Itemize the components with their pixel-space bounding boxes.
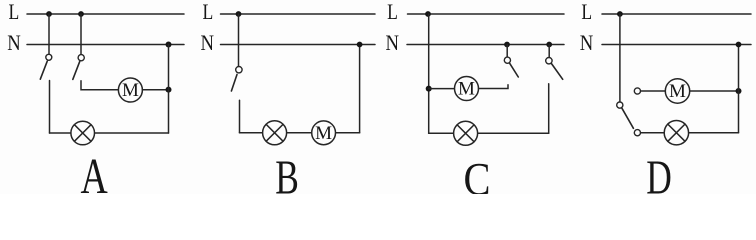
motor M (circuit D) <box>665 79 689 103</box>
wire N line (circuit C) <box>407 44 564 46</box>
wire L line (circuit A) <box>27 13 184 15</box>
wire bottom loop (circuit C) <box>429 132 549 134</box>
wire N line (circuit D) <box>602 44 751 46</box>
junction dot on N, right rail (circuit A) <box>166 42 172 48</box>
lamp (circuit C) <box>454 121 478 145</box>
junction dot motor/right rail (circuit A) <box>166 87 172 93</box>
wire L line (circuit D) <box>602 13 751 15</box>
svg-text:D: D <box>646 151 672 194</box>
wire right rail (circuit D) <box>738 45 740 133</box>
wire bottom loop (circuit A) <box>50 132 169 134</box>
wire N to switch S1 (circuit C) <box>506 45 508 58</box>
junction dot on N, switch S2 (circuit C) <box>546 42 552 48</box>
wire from L to switch (circuit B) <box>238 14 240 67</box>
junction dot on N (circuit B) <box>357 42 363 48</box>
junction dot on L, second drop (circuit A) <box>78 11 84 17</box>
switch terminal circle (circuit B) <box>236 67 242 73</box>
selector switch blade (circuit D) <box>622 108 634 128</box>
switch S2 terminal circle (circuit C) <box>546 58 552 64</box>
wire bottom loop (circuit B) <box>240 132 360 134</box>
switch S2 terminal circle (circuit A) <box>78 55 84 61</box>
svg-text:B: B <box>275 151 299 194</box>
junction dot left rail/motor branch (circuit C) <box>426 86 432 92</box>
lamp (circuit D) <box>664 121 688 145</box>
lamp branch terminal circle (circuit D) <box>634 130 640 136</box>
wire terminal to lamp (circuit D) <box>641 132 665 134</box>
svg-text:M: M <box>458 79 475 100</box>
svg-text:M: M <box>122 80 139 101</box>
wire right rail (circuit B) <box>359 45 361 133</box>
switch S2 blade (circuit C) <box>552 64 563 80</box>
switch blade (circuit B) <box>231 75 237 92</box>
wire left rail L to bottom (circuit C) <box>428 14 430 133</box>
junction dot on N, switch S1 (circuit C) <box>504 42 510 48</box>
switch S1 terminal circle (circuit A) <box>46 54 52 60</box>
wire N to switch S2 (circuit C) <box>548 45 550 58</box>
wire N line (circuit B) <box>221 44 376 46</box>
wire switch S2 to bottom loop (circuit C) <box>548 84 550 134</box>
junction dot on L, first drop (circuit A) <box>46 11 52 17</box>
wire motor to switch S1 lower terminal (circuit C) <box>479 85 509 89</box>
wire motor to right rail (circuit A) <box>142 89 168 91</box>
wire L to selector switch pole (circuit D) <box>619 14 621 102</box>
svg-text:L: L <box>581 0 592 24</box>
junction dot motor/right rail (circuit D) <box>736 88 742 94</box>
wire switch to bottom loop (circuit B) <box>239 100 241 133</box>
svg-text:C: C <box>464 154 491 194</box>
motor branch terminal circle (circuit D) <box>634 88 640 94</box>
junction dot on N (circuit D) <box>736 42 742 48</box>
svg-text:N: N <box>7 32 21 56</box>
wire switch S2 to motor (circuit A) <box>81 81 118 90</box>
svg-text:N: N <box>580 32 594 56</box>
svg-text:M: M <box>669 81 686 102</box>
wire from L to switch S2 (circuit A) <box>80 14 82 55</box>
motor M (circuit A) <box>118 78 142 102</box>
motor M (circuit B) <box>312 121 336 145</box>
svg-text:N: N <box>385 32 399 56</box>
svg-text:M: M <box>315 123 332 144</box>
motor M (circuit C) <box>455 77 479 101</box>
wire right rail N to bottom (circuit A) <box>168 45 170 134</box>
switch S1 blade (circuit C) <box>510 63 519 77</box>
wire motor to right rail (circuit D) <box>690 90 739 92</box>
wire from L to switch S1 (circuit A) <box>48 14 50 54</box>
selector switch pole circle (circuit D) <box>617 102 623 108</box>
wire lamp to right rail (circuit D) <box>689 132 739 134</box>
svg-text:L: L <box>387 0 398 24</box>
wire N line (circuit A) <box>27 44 184 46</box>
wire L line (circuit C) <box>408 13 565 15</box>
switch S2 blade (circuit A) <box>73 62 80 80</box>
lamp (circuit A) <box>71 121 95 145</box>
svg-text:L: L <box>203 0 214 24</box>
switch S1 terminal circle (circuit C) <box>504 57 510 63</box>
junction dot on L (circuit C) <box>425 11 431 17</box>
wire terminal to motor (circuit D) <box>641 90 666 92</box>
junction dot on L (circuit D) <box>617 11 623 17</box>
switch S1 blade (circuit A) <box>40 61 47 79</box>
wire to motor (circuit C) <box>429 88 455 90</box>
wire L line (circuit B) <box>221 13 376 15</box>
lamp (circuit B) <box>263 121 287 145</box>
svg-text:A: A <box>80 148 108 194</box>
svg-text:N: N <box>201 32 215 56</box>
wire switch S1 to bottom loop (circuit A) <box>49 81 51 134</box>
svg-text:L: L <box>9 0 20 24</box>
junction dot on L (circuit B) <box>236 11 242 17</box>
